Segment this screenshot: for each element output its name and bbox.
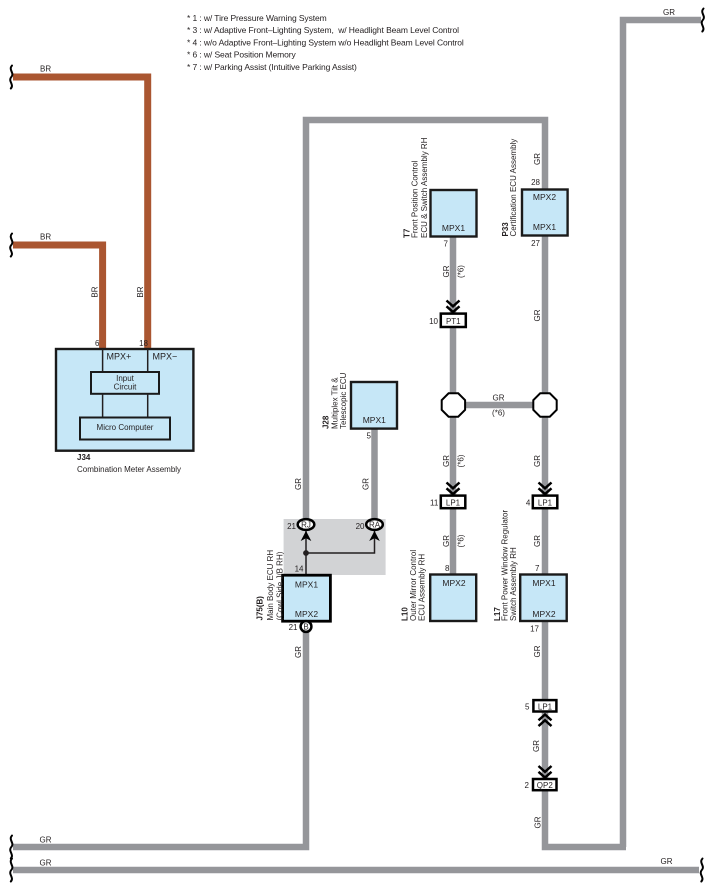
svg-text:Front Position Control: Front Position Control	[411, 160, 420, 238]
svg-text:GR: GR	[533, 645, 542, 657]
label GR / (*6) above PT1	[442, 265, 466, 278]
svg-text:Telescopic ECU: Telescopic ECU	[339, 372, 348, 429]
svg-text:GR: GR	[533, 153, 542, 165]
thin wire RJ to 14	[305, 531, 307, 576]
svg-text:MPX1: MPX1	[532, 578, 555, 588]
svg-text:GR: GR	[442, 265, 451, 277]
svg-text:GR: GR	[534, 816, 543, 828]
svg-text:Switch Assembly RH: Switch Assembly RH	[509, 547, 518, 621]
svg-text:10: 10	[429, 317, 438, 326]
break squiggle bottom bus right	[701, 859, 703, 882]
thin wire junction to RA	[306, 531, 375, 554]
svg-text:MPX2: MPX2	[532, 609, 555, 619]
node B pin 21	[289, 621, 312, 632]
break squiggle BR2	[10, 234, 12, 257]
svg-text:Micro Computer: Micro Computer	[97, 423, 154, 432]
svg-text:GR: GR	[663, 8, 675, 17]
junction dot	[303, 550, 309, 556]
break squiggle bottom bus left	[10, 859, 12, 882]
svg-text:MPX+: MPX+	[107, 352, 132, 362]
wire GR octagon link	[450, 394, 548, 418]
svg-text:GR: GR	[294, 646, 303, 658]
arrow chevrons into LP1-4	[539, 483, 552, 495]
wire GR L17/QP2 column to bottom corner	[545, 621, 626, 847]
svg-text:J28: J28	[322, 415, 331, 429]
label GR / (*6) above LP1-11	[442, 454, 466, 467]
svg-text:GR: GR	[362, 478, 371, 490]
node octagon A	[442, 393, 465, 416]
arrow chevrons into QP2	[539, 766, 552, 778]
T7 Front Position Control ECU & Switch Assembly RH	[403, 137, 477, 248]
connector LP1 pin 5	[525, 700, 556, 711]
wire GR J28 to RA	[371, 428, 378, 523]
svg-text:2: 2	[525, 781, 530, 790]
svg-text:MPX1: MPX1	[363, 415, 386, 425]
note legend	[187, 13, 464, 72]
wire GR right edge	[623, 8, 701, 847]
label GR / (*6) above L10	[442, 534, 466, 547]
svg-text:LP1: LP1	[538, 702, 553, 711]
break squiggle BR1	[10, 66, 12, 89]
svg-text:11: 11	[430, 498, 439, 507]
svg-text:Combination Meter Assembly: Combination Meter Assembly	[77, 465, 181, 474]
svg-text:6: 6	[95, 339, 100, 348]
arrow chevrons into LP1-11	[447, 483, 460, 495]
wire GR bottom bus	[13, 857, 699, 870]
L17 Front Power Window Regulator Switch Assembly RH	[493, 510, 567, 634]
svg-text:* 4 : w/o Adaptive Front–Light: * 4 : w/o Adaptive Front–Lighting System…	[187, 37, 464, 47]
svg-text:GR: GR	[533, 455, 542, 467]
svg-text:(*6): (*6)	[457, 454, 466, 467]
svg-text:GR: GR	[493, 394, 505, 403]
svg-text:LP1: LP1	[538, 498, 553, 507]
svg-text:21: 21	[287, 522, 296, 531]
svg-text:J75(B): J75(B)	[256, 596, 265, 621]
svg-text:7: 7	[535, 564, 540, 573]
svg-text:GR: GR	[442, 535, 451, 547]
svg-text:MPX1: MPX1	[442, 223, 465, 233]
wire BR to J34 pin 6	[13, 233, 103, 350]
break squiggle top right	[702, 9, 704, 32]
wire GR J75 to bottom left	[13, 630, 306, 847]
svg-text:Main Body ECU RH: Main Body ECU RH	[266, 550, 275, 621]
svg-text:MPX1: MPX1	[533, 222, 556, 232]
svg-text:GR: GR	[533, 535, 542, 547]
svg-text:GR: GR	[661, 857, 673, 866]
break squiggle bottom left	[10, 836, 12, 859]
wire GR column T7 to L10	[450, 235, 457, 577]
wire BR to J34 pin 18	[13, 65, 148, 350]
svg-text:27: 27	[531, 239, 540, 248]
node octagon B	[533, 393, 556, 416]
svg-text:MPX2: MPX2	[533, 192, 556, 202]
svg-text:28: 28	[531, 178, 540, 187]
arrowhead into RJ	[301, 531, 312, 541]
svg-text:7: 7	[444, 240, 449, 249]
J75(B) Main Body ECU RH (Cowl Side J/B RH)	[256, 550, 331, 622]
svg-text:RJ: RJ	[301, 521, 311, 530]
connector LP1 pin 4	[526, 496, 557, 509]
svg-text:(*6): (*6)	[492, 409, 505, 418]
svg-text:BR: BR	[40, 233, 51, 242]
svg-text:BR: BR	[40, 65, 51, 74]
junction block shaded area	[284, 519, 386, 575]
svg-text:20: 20	[356, 522, 365, 531]
svg-text:MPX−: MPX−	[153, 352, 178, 362]
arrow chevrons into PT1	[447, 301, 460, 313]
svg-text:BR: BR	[136, 286, 145, 297]
svg-text:Input: Input	[116, 374, 135, 383]
svg-text:Circuit: Circuit	[114, 383, 137, 392]
svg-text:B: B	[303, 622, 308, 631]
svg-text:* 6 : w/ Seat Position Memory: * 6 : w/ Seat Position Memory	[187, 50, 296, 60]
connector PT1 pin 10	[429, 314, 466, 327]
node RJ pin 21	[287, 519, 314, 531]
svg-text:PT1: PT1	[446, 317, 461, 326]
connector QP2 pin 2	[525, 779, 557, 790]
svg-text:BR: BR	[91, 286, 100, 297]
svg-text:ECU Assembly RH: ECU Assembly RH	[418, 554, 427, 621]
arrowhead into RA	[369, 531, 380, 541]
svg-text:* 7 : w/ Parking Assist (Intui: * 7 : w/ Parking Assist (Intuitive Parki…	[187, 62, 357, 72]
svg-text:GR: GR	[294, 478, 303, 490]
svg-text:5: 5	[367, 432, 372, 441]
P33 Certification ECU Assembly	[501, 139, 568, 322]
arrow chevrons out of LP1-5 (up)	[539, 715, 552, 727]
svg-text:J34: J34	[77, 453, 91, 462]
svg-text:(Cowl Side J/B RH): (Cowl Side J/B RH)	[276, 551, 285, 620]
svg-text:ECU & Switch Assembly RH: ECU & Switch Assembly RH	[420, 137, 429, 238]
svg-text:* 1 : w/ Tire Pressure Warning: * 1 : w/ Tire Pressure Warning System	[187, 13, 327, 23]
svg-text:Certification ECU Assembly: Certification ECU Assembly	[509, 139, 518, 237]
svg-text:GR: GR	[532, 740, 541, 752]
svg-text:GR: GR	[40, 836, 52, 845]
svg-text:MPX1: MPX1	[295, 579, 318, 589]
svg-text:RA: RA	[369, 521, 381, 530]
svg-text:21: 21	[289, 623, 298, 632]
node RA pin 20	[356, 519, 383, 531]
svg-text:QP2: QP2	[537, 781, 554, 790]
L10 Outer Mirror Control ECU Assembly RH	[401, 550, 477, 621]
svg-text:8: 8	[445, 564, 450, 573]
wire GR top loop (left vertical + top horizontal + P33 column)	[306, 120, 545, 574]
svg-text:4: 4	[526, 498, 531, 507]
svg-text:LP1: LP1	[446, 498, 461, 507]
svg-text:GR: GR	[442, 455, 451, 467]
J34 Combination Meter Assembly	[56, 339, 193, 474]
J28 Multiplex Tilt & Telescopic ECU	[322, 372, 397, 440]
svg-text:GR: GR	[533, 309, 542, 321]
svg-text:* 3 : w/ Adaptive Front–Lighti: * 3 : w/ Adaptive Front–Lighting System,…	[187, 25, 459, 35]
svg-text:MPX2: MPX2	[442, 578, 465, 588]
svg-text:(*6): (*6)	[457, 534, 466, 547]
svg-text:18: 18	[139, 339, 148, 348]
connector LP1 pin 11	[430, 496, 465, 509]
svg-text:14: 14	[295, 565, 304, 574]
svg-text:5: 5	[525, 702, 530, 711]
svg-text:(*6): (*6)	[457, 265, 466, 278]
svg-text:MPX2: MPX2	[295, 609, 318, 619]
svg-text:17: 17	[530, 625, 539, 634]
svg-text:GR: GR	[40, 859, 52, 868]
